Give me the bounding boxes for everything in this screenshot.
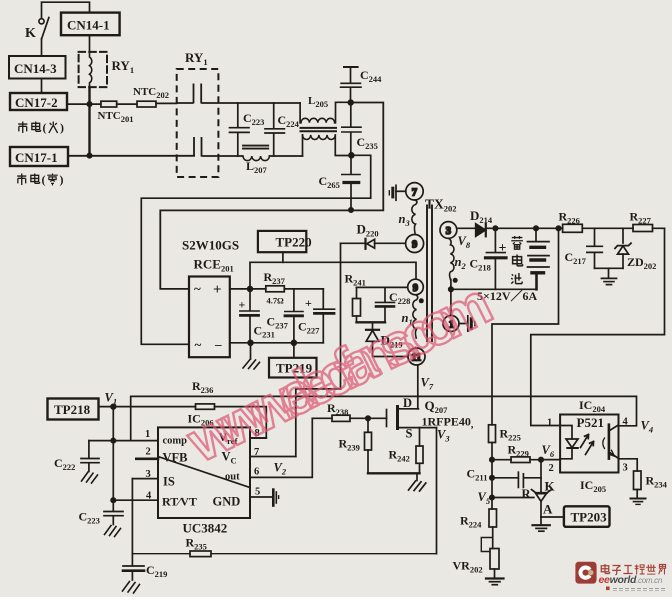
svg-text:4: 4 — [623, 417, 629, 428]
wire CN17-2 to NTC201 — [67, 103, 101, 105]
pin 3 terminal — [440, 222, 457, 239]
pin 1 wire with C222 — [89, 440, 158, 442]
transformer core — [427, 206, 432, 342]
svg-text:): ) — [60, 173, 64, 187]
svg-text:UC3842: UC3842 — [183, 521, 228, 536]
svg-text:comp: comp — [163, 436, 188, 447]
wire relay coil bottom (thick) — [88, 87, 90, 155]
wire A to TP203 — [541, 516, 564, 518]
svg-text:4.7Ω: 4.7Ω — [267, 296, 285, 306]
capacitor C218 (electrolytic) — [486, 228, 507, 289]
svg-text:3: 3 — [623, 463, 628, 474]
svg-text:TP220: TP220 — [276, 235, 312, 250]
pin 5 stub + bar-ground — [250, 490, 279, 506]
svg-text:CN17-1: CN17-1 — [15, 150, 58, 165]
resistor NTC202 — [137, 101, 156, 107]
wire n2 bottom to pin 1 — [450, 280, 452, 316]
opto phototransistor — [603, 425, 619, 459]
ground (earth style) under C217 — [602, 268, 617, 284]
svg-text:K: K — [545, 479, 556, 494]
connector CN17-2 — [10, 93, 67, 110]
svg-text:VFB: VFB — [163, 451, 188, 465]
opto light arrows — [581, 435, 594, 455]
wire bridge - output rail — [230, 342, 323, 344]
diode D214 — [457, 224, 486, 237]
wire pin2 into box — [541, 459, 560, 461]
svg-text:1: 1 — [547, 418, 552, 429]
pin 7 connector symbol — [389, 185, 406, 200]
connector CN14-1 — [61, 13, 120, 36]
node V6/TL431 tap — [539, 458, 543, 462]
wire V5 line — [492, 497, 534, 499]
capacitor C228 — [376, 287, 395, 322]
resistor R234 — [631, 471, 646, 504]
svg-text:1: 1 — [145, 429, 150, 440]
svg-text:5×12V／6A: 5×12V／6A — [477, 288, 538, 303]
capacitor C211 — [492, 472, 541, 487]
svg-text:+: + — [305, 296, 312, 310]
ground (earth) under TL431 — [533, 517, 550, 531]
snubber top rail to pin 9 — [357, 286, 408, 288]
svg-text:9: 9 — [412, 240, 417, 251]
resistor R239 — [365, 418, 372, 473]
resistor R238 — [312, 415, 386, 421]
pin 8 stub — [250, 437, 266, 439]
ground (slant) at source rail — [409, 473, 426, 491]
wire pin3 to R234 — [619, 459, 638, 471]
svg-text:–: – — [214, 337, 222, 352]
watermark www.elecfans.com — [177, 272, 499, 475]
svg-text:(: ( — [43, 121, 47, 135]
pin 7 wire (VC) up to D220 line — [250, 456, 296, 458]
resistor R224 — [489, 509, 497, 549]
pin 6 wire (out) — [250, 418, 312, 477]
wire battery bottom rail — [451, 288, 537, 290]
svg-text:(: ( — [42, 173, 46, 187]
wire battery top rail — [486, 227, 665, 229]
svg-text:): ) — [60, 121, 64, 135]
node n2 return junction — [449, 287, 453, 291]
capacitor C217 — [587, 228, 602, 268]
resistor R235 — [132, 551, 436, 557]
wire line Q (filter top to bridge upper input) — [160, 103, 383, 289]
pin 11 terminal — [408, 348, 425, 365]
pin 4 wire (RT/VT) — [113, 499, 158, 501]
node C218 tap — [493, 226, 497, 230]
resistor NTC201 — [101, 101, 117, 107]
capacitor C227 (electrolytic) — [314, 289, 335, 343]
label 市电(零) — [17, 173, 63, 187]
wire line P (filter mid to bridge lower input) — [141, 155, 370, 344]
wire top rail to C223/C224 — [238, 102, 300, 104]
wire NTC201 to NTC202 — [117, 103, 137, 105]
relay coil RY1 — [79, 52, 107, 87]
resistor R229 — [511, 457, 530, 463]
capacitor C223 (timing) — [104, 512, 123, 537]
svg-text:+: + — [239, 298, 246, 312]
diode D220 (to pin 9 aux) — [341, 239, 406, 249]
snubber bottom rail — [357, 321, 386, 323]
test point TP203 box — [564, 506, 610, 527]
svg-text:CN17-2: CN17-2 — [15, 95, 58, 110]
potentiometer VR202 — [481, 538, 503, 585]
svg-text:7: 7 — [412, 187, 417, 198]
opto LED — [560, 426, 578, 459]
node C265 on line Q — [349, 208, 353, 212]
wire V7 drain vertical (pin11 to drain) — [417, 365, 419, 409]
label 蓄电池 — [511, 236, 523, 284]
node battery tap — [534, 226, 538, 230]
inductor L207 with core — [243, 146, 269, 161]
svg-text:CN14-1: CN14-1 — [67, 18, 110, 33]
svg-text:P521: P521 — [577, 415, 604, 430]
winding n2 — [449, 238, 454, 279]
wire pin3 column down to R235 — [131, 479, 133, 554]
battery 蓄电池 symbol — [528, 228, 550, 289]
wire top loop K to CN14-1 — [42, 2, 90, 18]
winding n1 — [413, 295, 418, 338]
switch K — [39, 18, 49, 39]
transistor Q207 (MOSFET) — [387, 407, 437, 429]
node bridge+ junction — [248, 287, 253, 292]
IC UC3842 IC206 body — [158, 427, 250, 518]
svg-text:GND: GND — [213, 495, 241, 509]
node pin1/V1-column junction — [111, 438, 115, 442]
capacitor C265 — [342, 155, 360, 210]
capacitor C222 — [81, 441, 99, 483]
pin 1 terminal — [443, 316, 459, 332]
node n1 polarity dot — [419, 298, 424, 303]
node V1 — [111, 404, 116, 409]
node coil/fire-line junction — [87, 102, 91, 106]
pin 1 connector symbol — [459, 316, 475, 331]
test point TP219 box — [269, 343, 317, 378]
svg-text:K: K — [25, 26, 36, 41]
node filter mid junction — [349, 153, 354, 158]
pin 9 terminal (lower) — [408, 279, 424, 295]
ground (primary, slant style) — [243, 343, 260, 369]
svg-text:A: A — [543, 502, 553, 517]
wire CN14-1 to RY1 coil — [89, 35, 91, 52]
optocoupler P521 IC204 box — [560, 415, 618, 473]
resistor R236 — [196, 404, 215, 409]
wire R236 to pin 8 — [215, 407, 267, 438]
svg-text:~: ~ — [195, 337, 202, 352]
svg-text:2: 2 — [146, 447, 151, 458]
wire V6 line with R229 — [492, 459, 560, 461]
zener diode ZD202 — [615, 228, 631, 268]
node V5 — [490, 495, 494, 499]
label 市电(火) — [18, 121, 64, 135]
svg-text:3: 3 — [446, 226, 451, 237]
wire NTC202 to relay contact box — [156, 102, 177, 104]
shunt regulator TL431 (K/R/A) — [532, 460, 551, 517]
svg-text:+: + — [499, 241, 507, 256]
node C237/TP219 bottom — [292, 340, 297, 345]
svg-text:TP203: TP203 — [571, 510, 608, 525]
svg-text:+: + — [213, 282, 222, 298]
svg-text:3: 3 — [146, 469, 151, 480]
capacitor C219 — [123, 554, 145, 593]
svg-text:eeworld.com.cn: eeworld.com.cn — [599, 574, 663, 586]
svg-text:~: ~ — [194, 281, 201, 296]
node R226 left feed tap — [556, 226, 560, 230]
wire VDC+ rail to transformer pin 9 — [250, 262, 416, 289]
capacitor C224 — [265, 103, 284, 156]
node coil bottom / neutral rail junction — [87, 153, 91, 157]
svg-text:2: 2 — [549, 463, 554, 474]
wire bottom rail segments — [270, 155, 303, 157]
wire bridge + output rail — [230, 288, 323, 290]
node n2 polarity dot — [453, 278, 458, 283]
capacitor C237 — [285, 289, 303, 343]
relay contact 2 (neutral) — [194, 137, 243, 157]
wire CN14-3 to CN17-2 — [41, 79, 43, 94]
svg-text:D: D — [403, 396, 412, 410]
pin 7 terminal — [406, 183, 423, 200]
node pin4/V1-column — [111, 498, 115, 502]
pin 9 terminal (upper) — [406, 235, 424, 253]
pin 3 wire (IS) — [132, 478, 158, 480]
svg-text:5: 5 — [255, 487, 260, 498]
bridge rectifier RCE201 — [189, 277, 230, 358]
node R229 left — [490, 458, 494, 462]
wire VC line L2 (to UC3842 pin 7 riser) — [296, 389, 341, 457]
svg-text:1RFPE40,: 1RFPE40, — [422, 415, 474, 431]
svg-text:CN14-3: CN14-3 — [14, 61, 57, 76]
node C211 left — [490, 476, 494, 480]
connector CN14-3 — [9, 56, 66, 79]
capacitor C235 — [342, 103, 361, 156]
test point TP220 box — [258, 231, 306, 262]
node R239 tap — [366, 416, 370, 420]
resistor R237 — [266, 286, 285, 292]
wire CN17-1 to contact (neutral, bottom rail) — [68, 155, 194, 157]
resistor R225 — [489, 425, 496, 509]
diode D219 — [366, 322, 408, 356]
wire source bottom rail — [368, 472, 420, 474]
capacitor C244 (with open terminal) — [341, 67, 361, 103]
wire D220 cathode down to VC line — [340, 243, 342, 389]
wire L1: comp line (pin1 to opto collector) — [131, 396, 637, 440]
wire K to CN14-3 — [41, 39, 43, 56]
svg-text:S2W10GS: S2W10GS — [182, 238, 239, 253]
wire V1 column down — [112, 407, 114, 511]
wire V3 column (source to R235) — [436, 428, 438, 554]
winding n3 — [412, 200, 417, 234]
capacitor C231 (electrolytic) — [240, 289, 259, 343]
resistor R226 — [563, 224, 583, 232]
wire net A: battery+ down to R225 column — [492, 228, 559, 424]
transformer TX202 — [389, 183, 475, 365]
inductor L205 common-mode choke — [300, 102, 351, 156]
svg-text:out: out — [225, 472, 240, 483]
connector CN17-1 — [10, 147, 68, 166]
svg-text:6: 6 — [254, 467, 259, 478]
resistor R227 — [633, 225, 653, 232]
svg-text:TP218: TP218 — [54, 402, 91, 417]
svg-text:RT∕VT: RT∕VT — [162, 495, 197, 509]
svg-text:9: 9 — [413, 283, 418, 294]
resistor R241 — [353, 287, 361, 322]
capacitor C223 — [230, 103, 250, 156]
node filter top junction — [348, 100, 353, 105]
logo eeworld bottom-right — [575, 562, 665, 591]
relay contact 1 (live) — [177, 84, 238, 104]
svg-text:S: S — [406, 427, 413, 441]
node C231 bottom — [248, 340, 253, 345]
IC internal diagonal — [158, 457, 250, 488]
pin 2 stub (VFB) — [136, 457, 158, 460]
wire net B: R227 right to opto pin 1 — [531, 228, 665, 425]
svg-text:IS: IS — [163, 475, 175, 489]
svg-text:4: 4 — [146, 491, 152, 502]
wire C217/ZD bottom rail — [595, 267, 624, 269]
resistor R242 — [416, 428, 423, 474]
svg-text:R: R — [522, 487, 532, 501]
test point TP218 box — [48, 399, 196, 420]
relay RY1 contact box (dashed) — [177, 69, 219, 177]
